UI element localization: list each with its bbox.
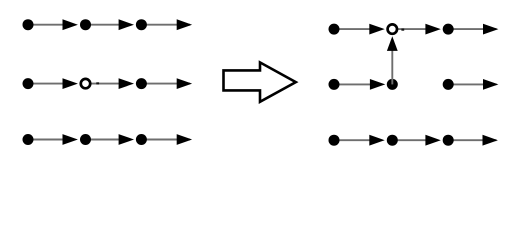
wire R3c-out [448,139,496,141]
wire L2b-L2c [86,83,129,85]
arrowhead R2 out [483,79,498,90]
arrowhead up into R1b [387,36,398,51]
wire L3a-L3b [28,139,73,141]
wire R3b-R3c [392,139,435,141]
wire R2b-up [391,50,393,85]
arrowhead R3 out [483,135,498,146]
arrowhead into L2c [119,78,134,89]
arrowhead into L3b [63,134,78,145]
wire R2a-R2b [334,83,380,85]
wire R3a-R3b [334,139,379,141]
node L2c [136,78,147,89]
node L1b [80,19,91,30]
node L2b (open) [81,79,90,88]
node R2c [443,79,454,90]
node R3c [443,135,454,146]
arrowhead L1 out [177,19,192,30]
arrowhead into R3c [425,135,440,146]
node R1c [443,24,454,35]
node R1a [329,24,340,35]
node L2a [23,78,34,89]
wire L1b-L1c [86,24,129,26]
arrowhead R1 out [483,24,498,35]
node L3b [80,134,91,145]
wire L2a-L2b [28,83,73,85]
wire L3c-out [141,139,190,141]
node R2b [387,79,398,90]
arrowhead into R1b [369,24,384,35]
arrowhead into L2b [63,78,78,89]
node L3c [136,134,147,145]
wire L1c-out [141,24,190,26]
mark on wire after R1b [401,29,404,31]
node L1a [23,19,34,30]
node R3b [387,135,398,146]
wire L3b-L3c [86,139,129,141]
arrowhead into R2b [370,79,385,90]
arrowhead into L3c [119,134,134,145]
node L3a [23,134,34,145]
arrowhead L2 out [177,78,192,89]
wire R1a-R1b [334,28,379,30]
node R3a [329,135,340,146]
arrowhead into L1c [119,19,134,30]
node L1c [136,19,147,30]
node R2a [329,79,340,90]
wire R1b-R1c [392,28,435,30]
arrowhead into R1c [425,24,440,35]
wire R2c-out [448,83,496,85]
node R1b (open) [388,24,397,33]
arrowhead into L1b [63,19,78,30]
arrowhead L3 out [177,134,192,145]
wire L1a-L1b [28,24,73,26]
arrowhead into R3b [369,135,384,146]
mark on wire after L2b [96,82,99,84]
wire R1c-out [448,28,496,30]
big hollow transform arrow [224,62,296,101]
wire L2c-out [141,83,190,85]
